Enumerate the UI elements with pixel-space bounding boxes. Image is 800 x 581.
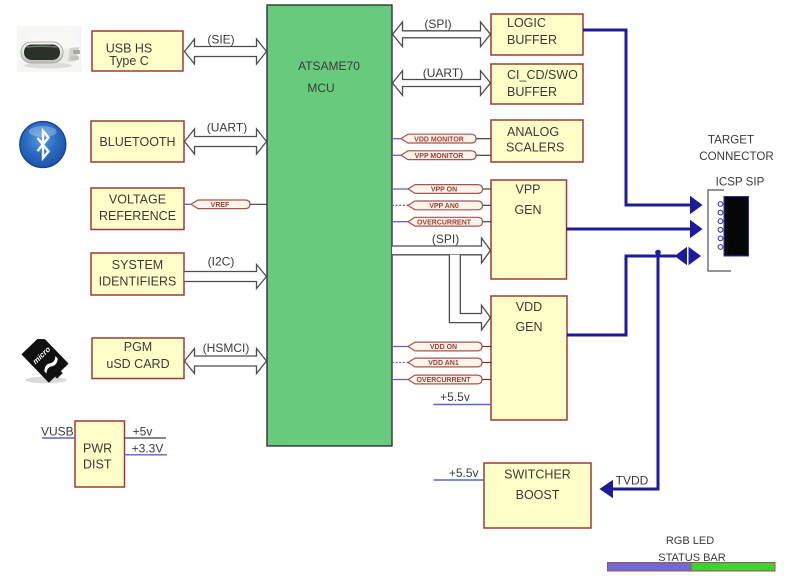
net VDD AN1 pill — [392, 358, 491, 367]
wire VPP GEN to target connector — [567, 228, 692, 231]
net VREF pill — [184, 200, 267, 209]
svg-text:VPP ON: VPP ON — [431, 187, 457, 194]
svg-text:VDD MONITOR: VDD MONITOR — [414, 136, 464, 143]
svg-text:LOGIC: LOGIC — [507, 16, 546, 30]
svg-text:OVERCURRENT: OVERCURRENT — [417, 219, 472, 226]
wire +5.5v into VDD GEN — [434, 390, 492, 405]
arrowhead into connector pin 1 — [690, 196, 703, 215]
wire +5v from PWR DIST — [125, 425, 167, 439]
block PGM uSD CARD — [92, 338, 184, 379]
bus arrow (HSMCI) uSD to MCU — [185, 341, 267, 374]
icon USB-C connector photo — [17, 26, 82, 72]
block VPP GEN — [491, 180, 567, 279]
svg-text:VPP: VPP — [515, 183, 540, 197]
connector J1 ICSP SIP body — [724, 197, 749, 257]
svg-text:Type C: Type C — [109, 54, 149, 68]
bus arrow (SIE) USB to MCU — [185, 33, 267, 65]
svg-text:uSD CARD: uSD CARD — [106, 357, 169, 371]
net VDD ON pill — [392, 342, 491, 351]
svg-text:PWR: PWR — [83, 441, 112, 455]
svg-text:VOLTAGE: VOLTAGE — [109, 193, 166, 207]
connector pins — [718, 202, 723, 250]
svg-text:VDD ON: VDD ON — [430, 344, 457, 351]
svg-text:SYSTEM: SYSTEM — [112, 258, 163, 272]
block PWR DIST — [75, 421, 125, 487]
svg-text:IDENTIFIERS: IDENTIFIERS — [99, 275, 177, 289]
svg-text:OVERCURRENT: OVERCURRENT — [416, 377, 471, 384]
junction node on TVDD wire — [655, 250, 661, 256]
RGB LED status bar — [608, 563, 776, 572]
svg-text:ATSAME70: ATSAME70 — [298, 59, 360, 73]
svg-text:+5.5v: +5.5v — [449, 466, 479, 480]
svg-text:(SIE): (SIE) — [207, 33, 234, 47]
arrowhead TVDD into switcher boost — [600, 480, 614, 499]
wire logic buffer to target connector (navy) — [583, 30, 691, 205]
svg-text:ANALOG: ANALOG — [507, 125, 559, 139]
svg-text:GEN: GEN — [514, 203, 541, 217]
svg-text:MCU: MCU — [307, 81, 334, 95]
wire +3.3V from PWR DIST — [125, 441, 168, 455]
net VPP AN0 pill — [392, 201, 491, 210]
svg-text:BUFFER: BUFFER — [507, 85, 557, 99]
svg-text:BUFFER: BUFFER — [507, 33, 557, 47]
svg-text:TARGET: TARGET — [708, 134, 754, 147]
svg-text:VPP MONITOR: VPP MONITOR — [415, 153, 464, 160]
svg-text:(SPI): (SPI) — [424, 17, 451, 31]
net OVERCURRENT pill (VPP) — [392, 217, 491, 226]
icon microSD card — [22, 336, 70, 384]
arrowhead into connector pin 2 — [690, 220, 703, 239]
wire +5.5v into SWITCHER BOOST — [434, 466, 485, 480]
svg-text:PGM: PGM — [124, 340, 152, 354]
svg-text:+5.5v: +5.5v — [440, 390, 470, 404]
block SYSTEM IDENTIFIERS — [91, 253, 184, 295]
svg-text:BLUETOOTH: BLUETOOTH — [99, 135, 175, 149]
bus arrow (UART) MCU to CI_CD/SWO buffer — [393, 66, 491, 95]
svg-text:+5v: +5v — [133, 425, 153, 439]
svg-text:(UART): (UART) — [423, 66, 463, 80]
block VOLTAGE REFERENCE — [91, 188, 184, 230]
wire VDD GEN up to target connector — [567, 256, 676, 335]
double arrowhead VDD line — [675, 247, 702, 266]
svg-text:SCALERS: SCALERS — [506, 141, 564, 155]
block BLUETOOTH — [91, 121, 184, 162]
svg-text:SWITCHER: SWITCHER — [504, 468, 571, 482]
net OVERCURRENT pill (VDD) — [392, 375, 491, 384]
svg-text:(UART): (UART) — [207, 121, 247, 135]
wire TVDD down to switcher boost — [612, 256, 658, 489]
svg-text:(SPI): (SPI) — [432, 232, 459, 246]
label RGB LED STATUS BAR — [658, 535, 725, 564]
svg-text:REFERENCE: REFERENCE — [99, 209, 176, 223]
svg-text:VREF: VREF — [211, 202, 230, 209]
net VPP MONITOR pill — [392, 151, 491, 160]
bus arrow (SPI) MCU to logic buffer — [393, 17, 491, 47]
svg-text:VPP AN0: VPP AN0 — [429, 203, 459, 210]
MCU U1 ATSAME70 block — [267, 5, 392, 446]
svg-text:BOOST: BOOST — [516, 488, 560, 502]
block VDD GEN — [491, 296, 567, 420]
svg-text:CONNECTOR: CONNECTOR — [699, 150, 774, 163]
svg-text:RGB LED: RGB LED — [666, 535, 714, 547]
svg-text:VDD AN1: VDD AN1 — [428, 360, 459, 367]
svg-text:+3.3V: +3.3V — [132, 441, 164, 455]
svg-text:GEN: GEN — [515, 320, 542, 334]
block LOGIC BUFFER — [491, 14, 583, 55]
svg-text:DIST: DIST — [83, 457, 112, 471]
bus arrow (SPI) MCU to VPP GEN with branch to VDD GEN — [392, 232, 491, 330]
svg-text:VUSB: VUSB — [41, 425, 74, 439]
block ANALOG SCALERS — [491, 120, 583, 162]
wire VUSB to PWR DIST — [41, 425, 75, 439]
svg-text:(HSMCI): (HSMCI) — [203, 341, 250, 355]
svg-text:CI_CD/SWO: CI_CD/SWO — [507, 68, 578, 82]
svg-text:(I2C): (I2C) — [208, 255, 235, 269]
bus arrow (UART) bluetooth to MCU — [185, 121, 267, 155]
net VDD MONITOR pill — [392, 134, 491, 143]
bracket ICSP SIP — [708, 190, 731, 271]
net VPP ON pill — [392, 185, 491, 194]
bus arrow (I2C) system identifiers to MCU — [185, 255, 267, 289]
label TARGET CONNECTOR — [699, 134, 774, 164]
svg-text:VDD: VDD — [516, 300, 542, 314]
svg-text:ICSP SIP: ICSP SIP — [716, 176, 765, 189]
svg-text:TVDD: TVDD — [616, 474, 649, 488]
icon Bluetooth logo — [20, 122, 66, 168]
block SWITCHER BOOST — [484, 463, 591, 528]
block USB HS Type C — [92, 31, 183, 71]
block CI_CD/SWO BUFFER — [491, 64, 583, 104]
